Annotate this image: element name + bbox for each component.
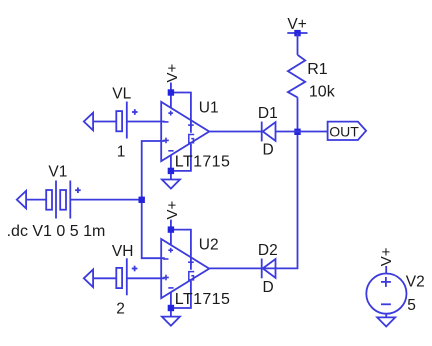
svg-text:5: 5 bbox=[407, 297, 416, 314]
svg-text:V2: V2 bbox=[406, 274, 425, 291]
svg-text:OUT: OUT bbox=[329, 123, 359, 139]
svg-text:D: D bbox=[263, 279, 274, 296]
svg-text:10k: 10k bbox=[309, 83, 336, 100]
svg-text:V+: V+ bbox=[164, 63, 181, 82]
svg-text:1: 1 bbox=[117, 144, 126, 161]
svg-text:D2: D2 bbox=[258, 242, 278, 259]
svg-text:VH: VH bbox=[112, 243, 134, 260]
svg-text:2: 2 bbox=[116, 300, 125, 317]
svg-text:U2: U2 bbox=[199, 237, 219, 254]
svg-text:R1: R1 bbox=[307, 61, 328, 78]
svg-text:V+: V+ bbox=[378, 247, 395, 266]
svg-text:D: D bbox=[263, 142, 274, 159]
svg-text:V1: V1 bbox=[48, 164, 67, 181]
svg-text:U1: U1 bbox=[199, 99, 219, 116]
svg-text:D1: D1 bbox=[258, 105, 278, 122]
svg-text:V+: V+ bbox=[164, 200, 181, 219]
svg-text:VL: VL bbox=[112, 86, 131, 103]
svg-text:LT1715: LT1715 bbox=[175, 154, 230, 171]
svg-text:.dc V1 0 5 1m: .dc V1 0 5 1m bbox=[7, 223, 106, 240]
svg-text:LT1715: LT1715 bbox=[175, 291, 230, 308]
